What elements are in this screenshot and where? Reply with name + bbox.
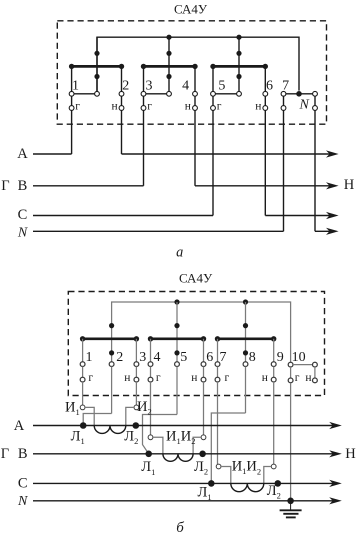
svg-text:2: 2 — [116, 350, 123, 365]
terminal 10 column b — [288, 362, 293, 498]
bus junction node (tap 3) — [236, 35, 241, 40]
wire phase C b — [33, 482, 334, 484]
node Л1 phase C — [208, 480, 215, 487]
meter enclosure B (dashed box) — [68, 292, 324, 396]
CT1 winding arcs phase A — [94, 426, 126, 434]
arrow phase C b — [329, 480, 342, 487]
svg-text:И1: И1 — [65, 400, 80, 418]
arrow phase B — [326, 182, 339, 189]
CT3 secondary terminal И1 circle — [216, 464, 221, 469]
jumper link terminal 1 to tap — [74, 93, 95, 95]
voltage bus (diagram b) — [112, 302, 291, 362]
terminal 3 column — [141, 66, 146, 185]
wire neutral incoming — [33, 230, 284, 232]
svg-text:н: н — [112, 100, 118, 112]
voltage jog wire tap2 to Л1 A — [83, 414, 111, 426]
node Л2 phase A — [133, 422, 140, 429]
CT2 winding arcs phase B — [163, 454, 193, 462]
node Л2 phase B — [199, 451, 206, 458]
bus junction node (tap 2) — [166, 35, 171, 40]
svg-text:N: N — [17, 494, 28, 509]
voltage bus (diagram a) — [97, 37, 299, 91]
terminal 10 link to spare — [293, 362, 317, 383]
svg-text:7: 7 — [220, 350, 227, 365]
wire phase A incoming — [33, 153, 72, 155]
tap node dots below bars — [94, 74, 241, 79]
wire phase A b — [33, 425, 334, 427]
CT3 secondary terminal И2 circle — [271, 464, 276, 469]
svg-text:5: 5 — [218, 78, 225, 93]
CT1 secondary wire И2 to winding — [126, 407, 134, 425]
svg-text:4: 4 — [154, 350, 161, 365]
wire phase C incoming — [33, 215, 213, 217]
svg-text:Л1: Л1 — [141, 459, 155, 477]
svg-text:И2: И2 — [137, 399, 152, 417]
CT2 secondary terminal И2 circle — [201, 435, 206, 440]
wire phase B outgoing — [195, 185, 331, 187]
jumper link terminal 3 to tap — [146, 93, 167, 95]
node Л2 phase C — [275, 480, 282, 487]
jumper circle tap 2 — [167, 91, 172, 96]
neutral bus junction dot — [296, 91, 302, 97]
bus junction node tap 5 — [174, 299, 179, 304]
svg-text:4: 4 — [182, 78, 189, 93]
terminal 6 column b — [201, 339, 206, 435]
terminal 5 tap column lower b — [175, 362, 180, 415]
svg-text:н: н — [185, 100, 191, 112]
terminal 5 column — [211, 66, 216, 215]
svg-text:н: н — [305, 372, 311, 384]
node neutral ground junction — [287, 498, 294, 505]
svg-text:Л1: Л1 — [198, 485, 212, 503]
svg-text:г: г — [88, 372, 93, 384]
jumper circle tap 1 — [95, 91, 100, 96]
voltage link bar terminals 4-6 — [148, 336, 206, 341]
svg-text:г: г — [217, 100, 222, 112]
arrow phase A — [326, 150, 339, 157]
svg-text:г: г — [295, 372, 300, 384]
terminal 4 column — [193, 66, 198, 185]
CT2 secondary wire И2 to winding — [193, 437, 201, 454]
terminal numbers 1-7 — [72, 78, 289, 93]
CT3 secondary wire И1 to winding — [221, 467, 231, 484]
CT2 secondary wire И1 to winding — [153, 437, 163, 454]
voltage tap wire phase B — [168, 37, 170, 91]
CT3 secondary wire И2 to winding — [264, 467, 272, 484]
svg-text:г: г — [75, 100, 80, 112]
voltage link bar group 3 — [210, 64, 268, 69]
arrow phase B b — [329, 450, 342, 457]
svg-text:Л2: Л2 — [194, 459, 208, 477]
svg-text:г: г — [225, 372, 230, 384]
wire neutral b — [33, 500, 334, 502]
svg-text:N: N — [299, 98, 310, 113]
svg-text:3: 3 — [139, 350, 146, 365]
svg-text:В: В — [18, 446, 28, 462]
svg-text:А: А — [14, 418, 25, 434]
terminal 1 column — [69, 66, 74, 154]
terminal 4 column b — [148, 339, 153, 435]
svg-text:б: б — [176, 520, 184, 536]
svg-text:5: 5 — [180, 350, 187, 365]
tap node dots below bars b — [109, 350, 248, 355]
bus junction node tap 8 — [243, 299, 248, 304]
voltage tap wire 3 — [245, 302, 247, 362]
svg-text:1: 1 — [72, 78, 79, 93]
voltage jog wire tap5 to Л1 B — [143, 415, 178, 454]
terminal 9 column b — [271, 339, 276, 464]
jumper link terminal 5 to tap — [215, 93, 236, 95]
wire phase A outgoing — [122, 153, 332, 155]
wire phase B incoming — [33, 185, 144, 187]
svg-text:3: 3 — [146, 78, 153, 93]
voltage jog wire tap8 to Л1 C — [211, 413, 245, 483]
terminal numbers 1-10 b — [86, 350, 306, 365]
svg-text:н: н — [255, 100, 261, 112]
svg-text:Н: Н — [344, 177, 355, 193]
terminal 7 column — [281, 91, 286, 231]
terminal 8 tap column lower b — [243, 362, 248, 413]
voltage link bar group 2 — [141, 64, 198, 69]
terminal 6 column — [263, 66, 268, 215]
svg-text:И1И2: И1И2 — [166, 428, 195, 446]
terminal N-load column — [313, 91, 318, 231]
svg-text:А: А — [17, 146, 28, 162]
CT1 secondary terminal И2 circle — [134, 405, 139, 410]
terminal 3 column b — [134, 339, 139, 405]
svg-text:г: г — [147, 100, 152, 112]
node Л1 phase B — [145, 451, 152, 458]
wire phase B b — [33, 453, 334, 455]
svg-text:6: 6 — [266, 78, 273, 93]
svg-text:н: н — [191, 372, 197, 384]
voltage tap wire phase A — [96, 37, 98, 91]
svg-text:1: 1 — [86, 350, 93, 365]
terminal 2 tap column lower b — [109, 362, 114, 414]
svg-text:С: С — [18, 207, 28, 223]
svg-text:Л2: Л2 — [124, 429, 138, 447]
CT1 secondary wire И1 to winding — [85, 407, 94, 425]
ground symbol — [280, 501, 302, 518]
svg-text:н: н — [124, 372, 130, 384]
CT2 secondary terminal И1 circle — [148, 435, 153, 440]
svg-text:Г: Г — [1, 178, 9, 194]
node Л1 phase A — [80, 422, 87, 429]
terminal letters г/н row B — [88, 372, 311, 384]
tap node dots above bars b — [109, 323, 248, 328]
arrow phase C — [326, 212, 339, 219]
svg-text:2: 2 — [122, 78, 129, 93]
svg-text:9: 9 — [277, 350, 284, 365]
terminal 1 column b — [80, 339, 85, 405]
voltage tap wire phase C — [238, 37, 240, 91]
svg-text:а: а — [176, 244, 183, 260]
CT1 secondary terminal И1 circle — [80, 405, 85, 410]
svg-text:И1И2: И1И2 — [232, 459, 261, 477]
tap node dots above bars — [94, 51, 241, 56]
neutral link bar in box — [286, 93, 313, 95]
svg-text:г: г — [156, 372, 161, 384]
wire neutral outgoing — [315, 230, 331, 232]
svg-text:N: N — [17, 225, 28, 240]
voltage link bar terminals 7-9 — [215, 336, 277, 341]
svg-text:С: С — [18, 476, 28, 492]
jumper circle tap 3 — [237, 91, 242, 96]
svg-text:7: 7 — [282, 78, 289, 93]
svg-text:Г: Г — [1, 446, 9, 462]
terminal 7 column b — [215, 339, 220, 464]
svg-text:СА4У: СА4У — [179, 270, 213, 285]
svg-text:8: 8 — [249, 350, 256, 365]
terminal letters г/н row A — [75, 100, 261, 112]
svg-text:Л1: Л1 — [71, 429, 85, 447]
terminal 2 column — [119, 66, 124, 154]
wire phase C outgoing — [265, 215, 331, 217]
svg-text:СА4У: СА4У — [174, 2, 208, 17]
voltage tap wire 2 — [176, 302, 178, 362]
svg-text:Н: Н — [345, 446, 356, 462]
svg-text:н: н — [262, 372, 268, 384]
svg-text:В: В — [18, 178, 28, 194]
svg-text:10: 10 — [292, 350, 306, 365]
arrow neutral — [326, 228, 339, 235]
meter enclosure A (dashed box) — [57, 21, 326, 124]
arrow phase A b — [329, 422, 342, 429]
CT3 winding arcs phase C — [231, 483, 264, 491]
svg-text:6: 6 — [206, 350, 213, 365]
voltage link bar group 1 — [69, 64, 124, 69]
voltage link bar terminals 1-3 — [80, 336, 139, 341]
arrow neutral b — [329, 497, 342, 504]
